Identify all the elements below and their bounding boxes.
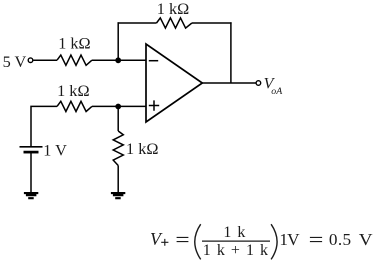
wire from op-amp output to VoA terminal bbox=[202, 82, 256, 84]
resistor R3 1 kΩ (series, non-inverting input) bbox=[57, 101, 92, 111]
wire battery top corner to resistor R3 bbox=[31, 106, 57, 146]
svg-text:5 V: 5 V bbox=[3, 52, 27, 71]
op-amp non-inverting input plus sign bbox=[149, 100, 159, 110]
formula equals sign bbox=[177, 237, 189, 241]
wire from R3 to op-amp non-inverting input bbox=[92, 105, 146, 107]
formula fraction bar bbox=[202, 240, 270, 242]
svg-text:1 kΩ: 1 kΩ bbox=[126, 139, 158, 158]
formula right parenthesis bbox=[271, 224, 277, 259]
svg-text:V: V bbox=[359, 230, 373, 249]
wire from 5V terminal to resistor R1 bbox=[33, 59, 57, 61]
resistor R2 1 kΩ (feedback) bbox=[157, 18, 192, 28]
node VoA output terminal bbox=[256, 81, 261, 86]
wire from R1 to op-amp inverting input bbox=[92, 59, 146, 61]
junction node at inverting input bbox=[115, 57, 121, 63]
svg-text:V: V bbox=[150, 229, 163, 249]
svg-text:1 kΩ: 1 kΩ bbox=[58, 34, 90, 53]
svg-text:1 kΩ: 1 kΩ bbox=[157, 0, 189, 18]
wire up from inverting node to feedback rail bbox=[117, 22, 119, 60]
svg-text:0.5: 0.5 bbox=[329, 230, 351, 249]
resistor R4 1 kΩ (to ground) bbox=[113, 131, 123, 166]
op-amp U1 bbox=[146, 44, 202, 122]
svg-text:oA: oA bbox=[271, 86, 283, 97]
wire feedback rail left segment bbox=[118, 22, 157, 24]
node 5V input terminal bbox=[28, 58, 33, 63]
junction node at non-inverting input bbox=[115, 104, 121, 110]
wire from R4 to ground bbox=[117, 166, 119, 193]
wire battery negative to ground bbox=[30, 153, 32, 192]
wire feedback rail right segment bbox=[192, 22, 232, 24]
formula second equals sign bbox=[310, 237, 322, 241]
svg-text:1 V: 1 V bbox=[43, 140, 67, 159]
battery V1 negative plate bbox=[24, 151, 39, 154]
ground G2 (R4) bbox=[111, 193, 125, 198]
resistor R1 1 kΩ (series input, inverting) bbox=[57, 55, 92, 65]
svg-text:1 kΩ: 1 kΩ bbox=[57, 81, 89, 100]
wire down from feedback rail to output bbox=[230, 22, 232, 83]
svg-text:1 k + 1 k: 1 k + 1 k bbox=[203, 242, 268, 259]
ground G1 (battery) bbox=[24, 193, 38, 198]
wire from non-inverting node down to resistor R4 bbox=[117, 107, 119, 132]
svg-text:1V: 1V bbox=[279, 230, 300, 249]
battery V1 positive plate bbox=[20, 146, 43, 148]
formula left parenthesis bbox=[195, 224, 201, 259]
op-amp inverting input minus sign bbox=[149, 60, 158, 62]
svg-text:1 k: 1 k bbox=[223, 224, 245, 241]
